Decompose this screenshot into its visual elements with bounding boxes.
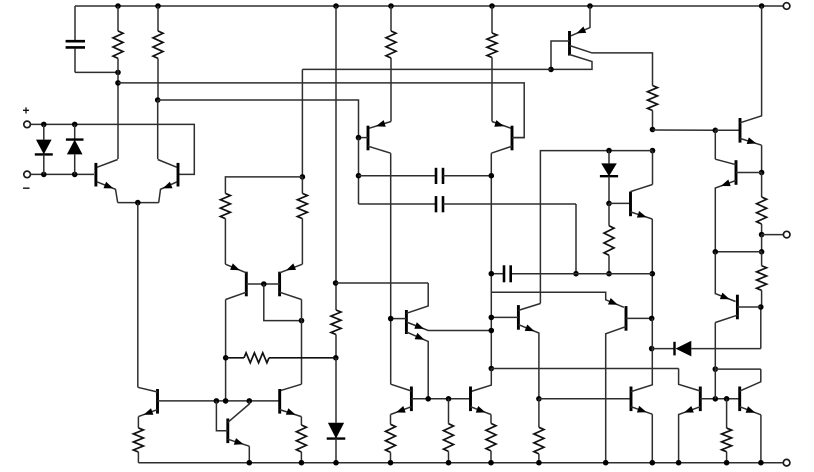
wire bias line to mirror xyxy=(302,68,551,70)
wire Qg collector feed xyxy=(715,368,761,370)
node bias line junction A xyxy=(214,398,220,404)
node compensation cap left node xyxy=(356,173,362,179)
transistor Q4 xyxy=(226,419,229,444)
transistor Qa xyxy=(405,310,408,334)
node Q15 emitter junction xyxy=(713,249,719,255)
diode D3 xyxy=(335,358,337,423)
node bottom rail junctions xyxy=(247,460,253,466)
transistor Q1 xyxy=(94,163,97,187)
transistor Qb xyxy=(410,387,413,412)
transistor Qf xyxy=(699,387,702,412)
diode D1 xyxy=(43,124,45,139)
node comp top junction xyxy=(650,148,656,154)
wire emitter split to left branch xyxy=(225,177,302,194)
wire mirror emitter feed from bias line xyxy=(301,69,303,176)
resistor R2 xyxy=(157,6,159,31)
transistor Q16 xyxy=(736,295,739,320)
node R2 bottom junction xyxy=(155,97,161,103)
resistor R6 xyxy=(220,193,230,218)
wire R3 to Q9 emitter xyxy=(390,58,392,122)
wire Q10 collector column xyxy=(490,153,492,368)
wire Q7-Q8 base tie xyxy=(246,283,279,285)
node Q13 base-collector tie xyxy=(548,67,554,73)
wire R7 to Q8 emitter xyxy=(301,219,303,265)
wire R6 to Q7 emitter xyxy=(224,219,226,265)
transistor Qc xyxy=(469,387,472,412)
transistor Q7 xyxy=(245,272,248,297)
capacitor C2 xyxy=(359,175,437,177)
transistor Q2 xyxy=(177,163,180,187)
resistor R12 xyxy=(137,417,139,428)
node Q9 base junction xyxy=(356,135,362,141)
node C4 left junction xyxy=(489,271,495,277)
diode D5 xyxy=(652,348,675,350)
resistor R1 xyxy=(117,6,119,31)
node Qf-Qg base junction B xyxy=(724,396,730,402)
wire D5 anode up to Q16 base net xyxy=(760,307,762,349)
transistor Q11 xyxy=(625,306,628,331)
wire Q15 emitter tie xyxy=(715,251,761,253)
wire Te base line xyxy=(539,398,630,400)
transistor Q3 xyxy=(156,389,159,414)
resistor R16 xyxy=(490,415,492,424)
wire R8 to lower node xyxy=(335,335,337,358)
wire -IN to Q1 base xyxy=(30,173,94,175)
wire Q9 collector down to Qa base xyxy=(390,153,392,384)
terminal V+ top right xyxy=(783,3,790,10)
node Q7 collector to R19 xyxy=(223,355,229,361)
node R1 column to feedback line xyxy=(115,80,121,86)
wire Qc collector xyxy=(471,369,492,392)
wire x715 column xyxy=(714,323,716,399)
wire Q12 base line xyxy=(609,202,629,204)
wire rail to comp node column xyxy=(335,6,337,310)
transistor Q13 xyxy=(568,31,571,56)
wire top supply rail V+ xyxy=(75,5,783,7)
node Te base junction xyxy=(536,396,542,402)
wire output stub xyxy=(762,234,784,236)
node diode D5 cathode junction xyxy=(649,346,655,352)
resistor R15 xyxy=(448,399,450,424)
node tail junction xyxy=(135,200,141,206)
node bias line junction B xyxy=(223,398,229,404)
wire net R1/Q1-collector to Q10 base xyxy=(118,83,524,138)
terminal +IN xyxy=(24,121,31,128)
transistor Qd xyxy=(517,305,520,330)
wire +IN to Q2 base xyxy=(30,124,194,174)
node Q14 emitter junction xyxy=(759,170,765,176)
resistor R5 xyxy=(648,86,658,111)
wire Q12 emitter down x652 column xyxy=(651,219,653,318)
transistor Q12 xyxy=(629,192,632,217)
node bias line junction C xyxy=(247,398,253,404)
node Qa base junction xyxy=(388,316,394,322)
resistor R17 xyxy=(538,399,540,428)
resistor R13 xyxy=(300,417,302,425)
wire bias base rail xyxy=(158,400,280,402)
wire net R2/Q2-collector to Q9 base xyxy=(158,100,359,138)
node mirror base node xyxy=(261,281,267,287)
transistor Qg xyxy=(738,387,741,412)
transistor Q9 xyxy=(367,126,370,151)
wire bottom rail V- xyxy=(138,462,783,464)
svg-text:+: + xyxy=(23,104,30,118)
diode D4 xyxy=(608,151,610,164)
wire R1 bottom to Q1 collector xyxy=(117,72,119,159)
node comp column lower junction xyxy=(333,355,339,361)
node mirror emitter split xyxy=(300,174,306,180)
capacitor C4 xyxy=(491,273,504,275)
node Qg collector feed junction xyxy=(713,366,719,372)
terminal OUT xyxy=(783,231,790,238)
resistor R18 xyxy=(726,399,728,428)
node Qd base junction xyxy=(489,315,495,321)
resistor R7 xyxy=(301,177,303,194)
node top rail junctions xyxy=(115,3,121,9)
wire R2 bottom to Q2 collector xyxy=(157,100,159,159)
node D4 anode junction xyxy=(606,148,612,154)
node comp column upper junction xyxy=(333,280,339,286)
wire comp line cap C4 net xyxy=(511,273,653,275)
resistor R4 xyxy=(491,6,493,33)
resistor R9 xyxy=(761,173,763,198)
node R11 top junction xyxy=(759,249,765,255)
wire Q7 collector down xyxy=(225,300,227,401)
node Qb-Qc line junction B xyxy=(446,396,452,402)
node Q15 collector junction xyxy=(713,128,719,134)
diode D2 xyxy=(74,124,76,139)
wire Q14 base line xyxy=(653,129,716,131)
node D4 cathode junction xyxy=(606,201,612,207)
transistor Q8 xyxy=(278,272,281,297)
resistor R14 xyxy=(390,415,392,425)
wire tail current line xyxy=(137,203,139,388)
node Q16 base junction xyxy=(758,304,764,310)
resistor R3 xyxy=(390,6,392,31)
wire Q1/Q2 emitter bus xyxy=(118,202,159,204)
node D1 cathode xyxy=(41,172,47,178)
node C3 drop junction xyxy=(573,271,579,277)
terminal V- bottom right xyxy=(783,459,790,466)
wire output node down xyxy=(761,235,763,252)
node Q8 collector junction xyxy=(299,318,305,324)
transistor Q15 xyxy=(735,160,738,185)
transistor Qe xyxy=(630,387,633,412)
wire comp node to Td collector line xyxy=(540,151,652,304)
wire C3 to lower comp line xyxy=(575,204,577,274)
wire Qa collector to comp node xyxy=(336,282,429,284)
node R5 to Q14 base line xyxy=(650,127,656,133)
node C1/R1 junction xyxy=(115,70,121,76)
node D2 anode xyxy=(72,172,78,178)
node C2 right node xyxy=(489,173,495,179)
node Qa emitter1 junction xyxy=(489,328,495,334)
resistor R10 xyxy=(608,203,610,225)
resistor R8 xyxy=(331,310,341,335)
transistor Q10 xyxy=(511,126,514,151)
node Q10 collector comp junction xyxy=(489,366,495,372)
svg-text:−: − xyxy=(23,181,31,196)
node Qf-Qg base junction A xyxy=(713,396,719,402)
wire comp feedback line xyxy=(491,368,678,370)
node R10 bottom junction xyxy=(606,271,612,277)
wire Te emitter feed net xyxy=(491,292,624,307)
capacitor C1 xyxy=(74,6,76,40)
transistor Q5 xyxy=(278,389,281,414)
node Qb-Qc line junction A xyxy=(425,396,431,402)
resistor R11 xyxy=(757,266,767,291)
wire Qb base line xyxy=(411,398,470,400)
transistor Q14 xyxy=(739,118,742,143)
terminal -IN xyxy=(24,171,31,178)
wire Q9 base node down xyxy=(358,138,360,204)
wire Q8 collector down to Q5 collector xyxy=(301,300,303,385)
capacitor C3 xyxy=(359,203,437,205)
wire R4 to Q10 emitter xyxy=(491,58,493,122)
node D2 cathode xyxy=(72,122,78,128)
node output tap xyxy=(759,232,765,238)
node Q11 base junction xyxy=(649,316,655,322)
node comp line junction xyxy=(650,271,656,277)
node D1 anode xyxy=(41,122,47,128)
wire base to Q8 collector diode tie xyxy=(264,284,302,321)
resistor R19 xyxy=(226,357,244,359)
